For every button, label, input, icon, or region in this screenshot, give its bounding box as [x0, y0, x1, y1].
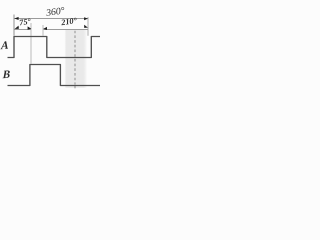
waveform B — [8, 65, 101, 86]
arrow left 360 — [14, 17, 18, 20]
arrow right 360 — [84, 17, 88, 20]
arrow left 210 — [43, 27, 47, 30]
extension line x=14 — [13, 15, 15, 36]
arrow left 75 — [15, 26, 19, 29]
svg-text:B: B — [2, 68, 11, 81]
arrow right 75 — [28, 26, 32, 29]
arrow right 210 — [84, 25, 88, 28]
extension line x=88 — [87, 17, 89, 36]
background — [0, 0, 100, 100]
dash tail below B — [74, 86, 76, 88]
dimension line 360 — [15, 18, 89, 20]
extension line x=43 — [42, 25, 44, 36]
extension line x=31 — [30, 23, 32, 64]
dimension line 210 — [44, 29, 88, 31]
svg-text:A: A — [0, 39, 9, 52]
waveform A — [8, 37, 101, 58]
dashed center line — [74, 31, 76, 85]
svg-text:75°: 75° — [19, 17, 32, 28]
dimension line 75 — [15, 29, 32, 31]
